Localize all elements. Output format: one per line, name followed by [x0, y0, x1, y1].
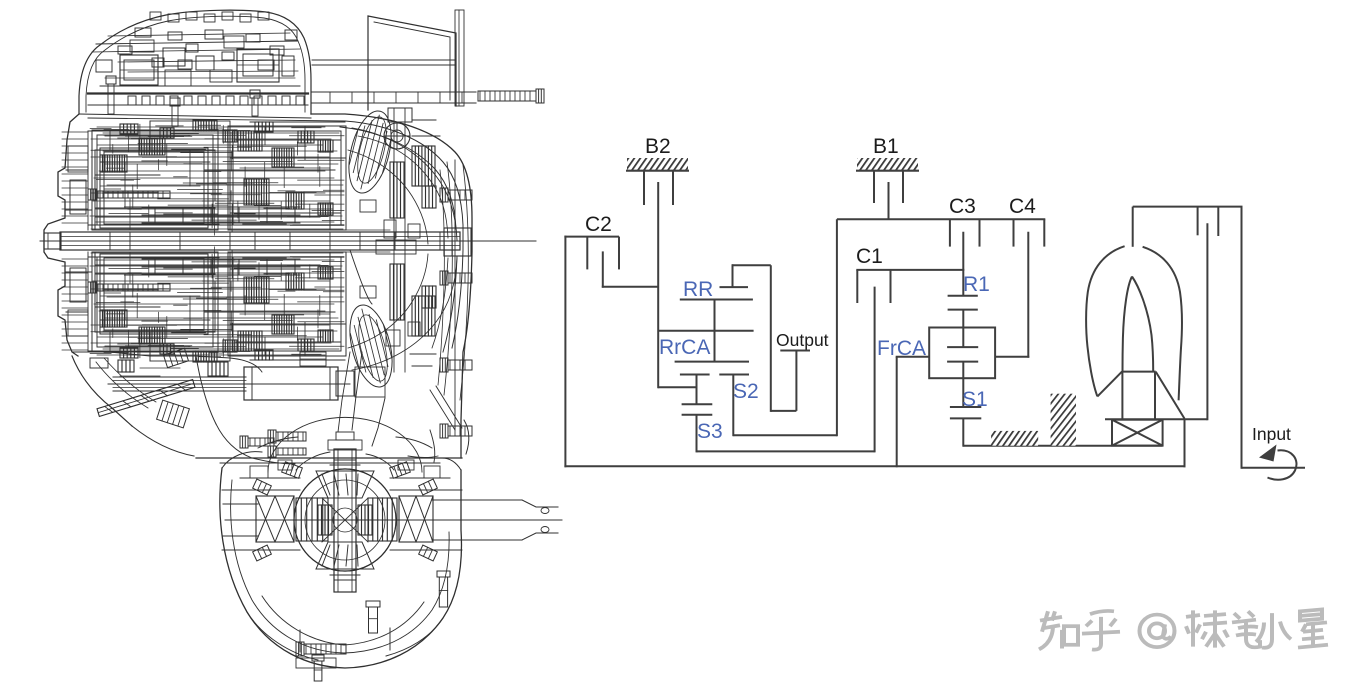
svg-text:Input: Input — [1252, 424, 1291, 444]
wire bus left leg down to S2 — [836, 219, 838, 436]
wire FrCA down to input bus — [896, 357, 898, 468]
rear sun right plate — [719, 374, 749, 376]
converter pump impeller left leaf — [1086, 246, 1125, 396]
countershaft / output gear section — [108, 383, 350, 385]
differential assembly — [225, 519, 562, 521]
converter shell stem — [1132, 207, 1134, 247]
wire front sun shaft inside box — [962, 362, 964, 407]
svg-text:S3: S3 — [697, 420, 723, 443]
main input shaft — [40, 240, 536, 242]
clutch C4 drum plates — [1013, 219, 1015, 246]
svg-text:C4: C4 — [1009, 195, 1036, 218]
brake B2 ground hatch — [626, 158, 689, 171]
sun S3 mesh plates — [682, 404, 713, 415]
lock-up hub / turbine shaft — [1206, 223, 1208, 420]
lock-up clutch plates — [1198, 207, 1219, 236]
clutch C2 drum — [564, 237, 619, 270]
converter turbine right leaf — [1143, 247, 1182, 400]
wire R1 to front gearset — [962, 310, 964, 348]
transmission cross-section artwork — [40, 10, 562, 681]
rear sun gear line — [675, 361, 749, 363]
wire bus right end tick — [1043, 219, 1045, 246]
clutch C1 hub down to S3 line — [874, 287, 876, 453]
one-way clutch F2 hatch block — [1051, 394, 1076, 446]
svg-text:B2: B2 — [645, 135, 671, 158]
one-way clutch F1 hatch — [991, 431, 1038, 446]
rear pinion — [714, 300, 716, 362]
rear ring mesh plate — [720, 286, 749, 288]
wire C2 drum to input bus — [564, 236, 566, 468]
rear ring stem — [732, 264, 734, 287]
wire main input shaft bus — [564, 465, 1185, 467]
svg-text:B1: B1 — [873, 135, 899, 158]
svg-text:Output: Output — [776, 330, 829, 350]
turbine lower diagonal — [1156, 372, 1185, 419]
torque converter housing section — [393, 108, 395, 372]
wire S1 down — [962, 418, 964, 446]
transmission top cover / valve body dome — [79, 10, 311, 114]
wire carrier elbow to S3 plate — [658, 386, 697, 388]
clutch C2 hub plate — [602, 251, 604, 287]
svg-text:RrCA: RrCA — [659, 336, 710, 359]
torque converter top shell — [1133, 206, 1243, 208]
impeller lower diagonal — [1097, 372, 1122, 397]
wire S2 down and right to B1/C3 bus leg — [733, 375, 837, 437]
rear sun left plate — [680, 374, 710, 376]
wire B2 hub to rear carrier — [657, 182, 659, 388]
input rotation arrow — [1268, 450, 1297, 479]
wire front carrier right link to C4 — [995, 356, 1029, 358]
stator shaft line — [1105, 418, 1207, 420]
clutch C1 drum — [856, 270, 964, 303]
wire engine input shell — [1242, 207, 1306, 469]
stator column sides — [1122, 372, 1155, 420]
front sun S1 mesh plates — [950, 407, 981, 418]
front planetary gearset box — [929, 328, 995, 379]
bell housing upper flange — [368, 16, 456, 110]
wire top drum bus — [837, 218, 1045, 220]
wire rear ring to output — [732, 265, 797, 412]
output underline — [780, 350, 810, 352]
clutch C4 hub down to front carrier — [1027, 232, 1029, 358]
front ring R1 mesh plates — [948, 296, 978, 310]
stator hub top line — [1122, 371, 1156, 373]
S3 sun stem upper — [696, 375, 698, 405]
wire S1 ground line to one-way clutch — [963, 445, 1162, 447]
wire C2 hub to B2 shaft — [602, 286, 658, 288]
wire converter output to bus — [1184, 419, 1186, 468]
stator one-way clutch box — [1112, 420, 1163, 446]
brake B1 ground hatch — [856, 158, 919, 171]
svg-text:RR: RR — [683, 278, 713, 301]
wire FrCA left link — [896, 356, 930, 358]
output stem — [795, 350, 797, 411]
watermark text (stylized) — [1039, 609, 1328, 649]
brake B2 plates — [644, 171, 673, 205]
svg-text:C1: C1 — [856, 245, 883, 268]
rear ring gear line — [680, 299, 753, 301]
clutch C3 hub to R1 — [962, 232, 964, 296]
wire B1 hub down to bus — [888, 182, 890, 219]
svg-text:R1: R1 — [963, 273, 990, 296]
converter stator bullet — [1123, 277, 1154, 372]
rear carrier line — [658, 330, 753, 332]
gearbox case outline — [44, 114, 79, 356]
clutch C3 drum plates — [950, 219, 980, 246]
svg-text:C3: C3 — [949, 195, 976, 218]
svg-text:S2: S2 — [733, 380, 759, 403]
brake B1 plates — [874, 171, 903, 203]
svg-text:C2: C2 — [585, 213, 612, 236]
wire S3 down and right to C1 hub — [697, 415, 875, 453]
front pinion plates — [947, 347, 978, 362]
